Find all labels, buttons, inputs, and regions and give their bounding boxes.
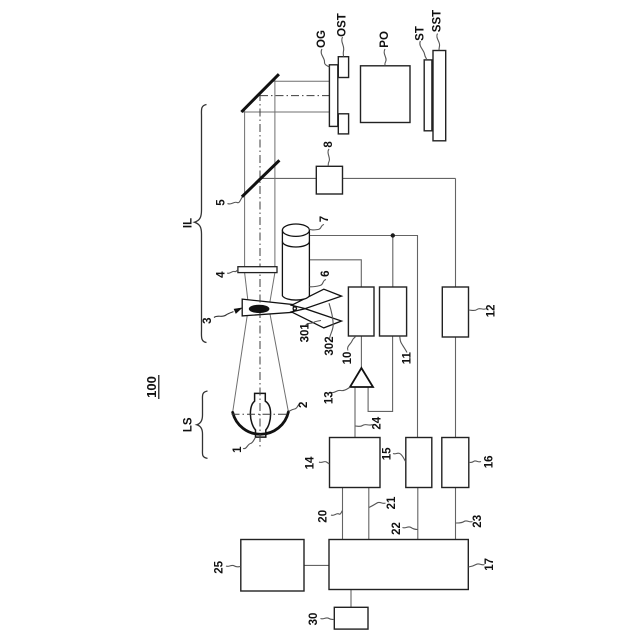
wire feedback box 11 to amp 13: [368, 336, 393, 411]
beam vertical left edge: [244, 110, 246, 267]
wire 23 box 16 to box 17: [455, 488, 457, 541]
leader 25: [226, 565, 241, 566]
svg-text:7: 7: [319, 216, 331, 222]
leader 22: [403, 527, 418, 530]
svg-text:5: 5: [215, 199, 227, 206]
beam horizontal top edge: [272, 80, 329, 82]
LS brace: [197, 391, 208, 458]
motor 7 top ellipse: [282, 224, 309, 236]
svg-text:6: 6: [320, 270, 332, 276]
box 17: [329, 540, 468, 590]
beam horizontal bottom edge: [242, 111, 330, 113]
svg-text:25: 25: [214, 560, 226, 573]
ST plate: [424, 60, 432, 131]
shutter blade 301 (top): [292, 289, 342, 308]
junction dot: [391, 233, 395, 237]
wire box 12 to box 16: [455, 337, 457, 438]
wire motor 7 to corner toward box 15: [309, 236, 417, 438]
mirror (top): [241, 74, 279, 112]
svg-text:11: 11: [401, 352, 413, 365]
svg-text:IL: IL: [183, 218, 195, 228]
svg-text:301: 301: [299, 323, 311, 343]
svg-text:21: 21: [386, 496, 398, 509]
svg-text:30: 30: [308, 613, 320, 626]
leader PO: [384, 49, 386, 66]
leader 17: [469, 564, 485, 567]
motor 7 cylinder body: [282, 230, 309, 300]
wire 24 amp 13 to box 14: [354, 387, 356, 438]
OG plate: [329, 65, 337, 127]
leader 21: [369, 502, 386, 507]
IL brace: [195, 105, 207, 343]
box 15: [406, 438, 432, 488]
wire junction to box 11: [392, 236, 394, 288]
leader 23: [456, 521, 473, 523]
svg-text:OG: OG: [316, 30, 328, 48]
svg-text:4: 4: [215, 271, 227, 278]
leader 13: [332, 387, 351, 393]
wire box 10 to amp 13: [360, 336, 362, 368]
leader 16: [469, 461, 481, 463]
wire box 17 to box 30: [350, 590, 352, 608]
box 25: [241, 540, 304, 592]
leader 4: [227, 270, 238, 274]
OST upper block: [338, 57, 348, 78]
svg-text:100: 100: [144, 376, 159, 398]
leader 24: [355, 425, 372, 427]
beam converging left below lens 4: [245, 273, 249, 305]
wire 21: [368, 488, 370, 541]
leader SST: [437, 34, 440, 51]
beam diverging left to reflector rim: [233, 316, 247, 412]
svg-text:SST: SST: [432, 10, 444, 32]
wire from box 8 to corner: [343, 177, 456, 179]
svg-text:OST: OST: [337, 13, 349, 37]
leader arrow 3: [214, 312, 234, 318]
lens 4: [238, 267, 277, 273]
svg-text:12: 12: [485, 304, 497, 317]
leader 5: [228, 197, 243, 204]
shutter blade 302 (bottom): [292, 309, 342, 328]
leader 302: [329, 303, 333, 338]
wire 20: [342, 488, 344, 541]
dash-dot optical axis horizontal: [260, 95, 329, 97]
svg-text:1: 1: [232, 446, 244, 453]
box 16: [442, 438, 469, 488]
reflector 2 arc: [233, 412, 289, 434]
svg-text:20: 20: [317, 510, 329, 523]
SST plate: [433, 51, 446, 141]
beam vertical right edge: [274, 79, 276, 267]
svg-text:LS: LS: [183, 417, 195, 432]
wire box 25 to box 17: [304, 564, 329, 566]
svg-text:15: 15: [381, 447, 393, 460]
leader 6: [310, 280, 326, 287]
box 30: [334, 607, 368, 629]
svg-text:8: 8: [323, 141, 335, 148]
leader 14: [319, 462, 329, 464]
box 11: [380, 287, 407, 336]
svg-text:24: 24: [372, 416, 384, 429]
svg-text:17: 17: [484, 558, 496, 571]
wire from mirror 5 to box 8: [261, 177, 317, 179]
beam diverging right to reflector rim: [270, 313, 289, 411]
svg-text:10: 10: [342, 352, 354, 365]
leader 11: [400, 337, 407, 353]
PO box: [361, 66, 411, 123]
box 8: [316, 166, 342, 194]
svg-text:ST: ST: [414, 26, 426, 41]
leader 7: [309, 225, 325, 230]
amplifier 13: [350, 368, 373, 387]
leader 20: [331, 511, 342, 516]
dash-dot optical axis vertical: [259, 93, 261, 447]
wire down to box 12: [455, 178, 457, 287]
focus spot ellipse: [249, 305, 270, 313]
lamp bulb 1: [250, 393, 270, 437]
leader 15: [393, 453, 406, 461]
wire 22: [417, 488, 419, 541]
leader 1: [243, 438, 255, 449]
wire motor 7 to box 10: [309, 260, 361, 287]
leader 30: [321, 618, 335, 620]
svg-text:13: 13: [324, 391, 336, 404]
svg-text:3: 3: [202, 317, 214, 323]
svg-text:23: 23: [472, 515, 484, 528]
OST lower block: [338, 114, 348, 134]
box 14: [330, 438, 381, 488]
box 10: [348, 287, 374, 336]
leader 8: [328, 149, 329, 166]
leader 10: [348, 337, 356, 351]
svg-text:2: 2: [298, 402, 310, 408]
svg-text:22: 22: [391, 522, 403, 535]
element 3 trapezoid: [242, 299, 293, 316]
leader OG: [321, 49, 329, 67]
svg-text:302: 302: [324, 336, 336, 355]
leader 301: [306, 321, 321, 326]
svg-text:14: 14: [305, 456, 317, 469]
box 12: [442, 287, 468, 337]
svg-text:PO: PO: [379, 31, 391, 48]
leader 12: [469, 309, 486, 311]
svg-text:16: 16: [483, 456, 495, 469]
leader 2: [289, 404, 301, 412]
hub pivot: [293, 307, 296, 310]
dash-dot lamp axis: [232, 413, 290, 415]
leader ST: [420, 41, 427, 60]
mirror 5: [242, 160, 280, 197]
leader OST: [342, 37, 344, 57]
beam converging right below lens 4: [270, 273, 275, 305]
motor 7 band: [282, 242, 309, 248]
